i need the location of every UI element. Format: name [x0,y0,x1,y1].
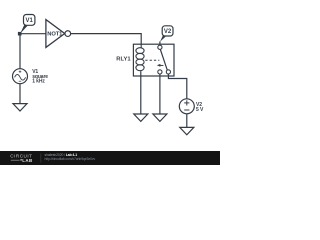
V2 value labels [196,102,204,113]
wire V2 source to ground [186,114,188,128]
op-amp U1: NOT gate NOT1 triangle [46,20,71,48]
CircuitLab logo [10,154,32,163]
svg-text:V2: V2 [164,29,172,35]
svg-text:V1: V1 [26,18,34,24]
node A junction dot [18,32,22,36]
watermark bar [0,151,220,165]
switch NC contact circle [158,70,162,74]
ground (V2) [180,127,194,134]
flag label V2 (node name) [160,26,173,42]
wire relay NO pin to V2 source [168,74,186,99]
relay coil L (inside relay) [136,44,144,70]
voltage source V2 (5 V DC) [179,99,194,114]
svg-text:5 V: 5 V [196,107,204,113]
wire V1 source to ground [19,84,21,104]
relay RLY1 body [133,44,174,76]
NOT gate inversion bubble [65,31,71,37]
svg-text:1 kHz: 1 kHz [32,79,45,85]
wire NOT gate output to relay coil [71,34,142,45]
voltage source V1 (square 1 kHz) [13,69,28,84]
wire relay NC pin to ground [159,74,161,114]
switch common contact pin circle [158,45,162,49]
wire node to NOT gate input [20,33,47,35]
ground (relay NC) [153,114,167,121]
switch NO contact circle [166,70,170,74]
watermark separator [40,154,42,163]
wire V2 flag stub to switch common pin [159,41,161,45]
ground (relay coil) [134,114,148,121]
flag label V1 (node name) [20,15,35,34]
svg-text:RLY1: RLY1 [116,57,131,63]
wire relay coil pin to ground [140,71,142,114]
dashed mechanical link [145,59,159,61]
svg-text:*LAB: *LAB [20,158,32,163]
actuator arrow on blade [157,64,164,67]
wire node down to V1 source [19,34,21,69]
switch blade (common to NO contact) [160,49,167,70]
ground (V1) [13,104,27,111]
V1 value labels [32,69,48,84]
svg-text:http://circuitlab.com/c7ahb9qe: http://circuitlab.com/c7ahb9qe3e0vv [45,157,96,161]
svg-text:NOT1: NOT1 [47,32,63,38]
